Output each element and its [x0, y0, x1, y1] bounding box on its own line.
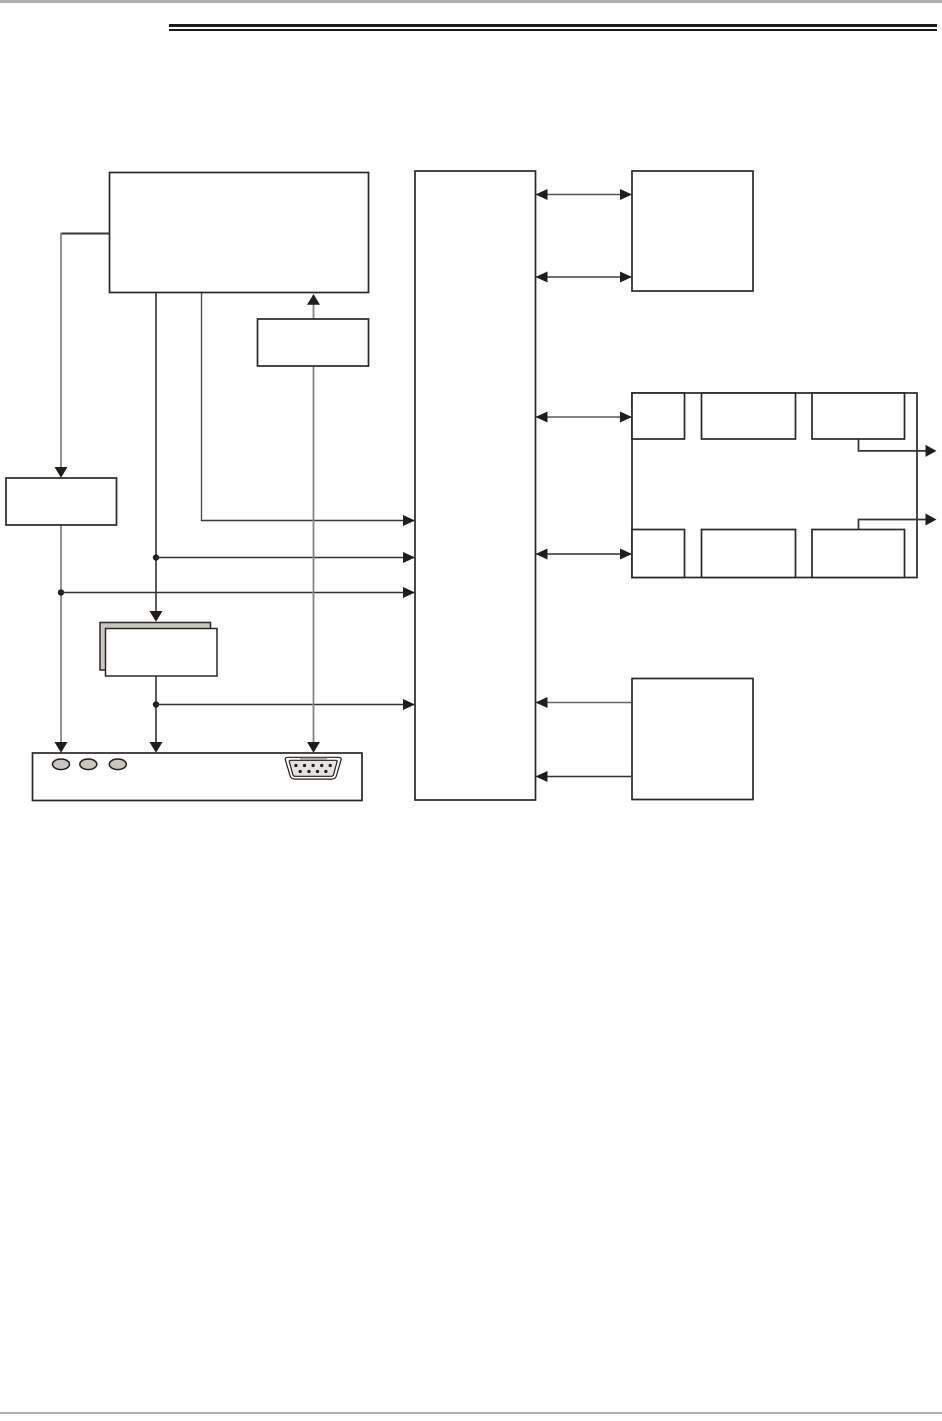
wire: bidirectional arrow central<->top-right y=277	[537, 276, 632, 278]
wire: exit arrow from T3 down-right y=450.9	[859, 439, 927, 451]
LED ellipse 1	[53, 759, 70, 770]
block: top-left controller	[110, 173, 369, 293]
wire: small box up-arrow into big box	[313, 304, 315, 319]
DB9 pin dots row 1	[294, 764, 297, 767]
wire: small box bottom down to panel with arrow	[313, 366, 315, 746]
block: bottom-right box	[632, 679, 753, 800]
header double rule	[169, 24, 937, 27]
wire: horizontal arrow y=704.5 to central box	[156, 704, 414, 706]
LED ellipse 2	[80, 759, 97, 770]
wire: bidirectional arrow central<->right block y=554	[537, 553, 632, 555]
junction dot at (156,704.5)	[153, 701, 159, 707]
DB9 connector outer shell	[285, 757, 341, 779]
block: inner box T3	[812, 393, 905, 439]
block: small box under top-left	[258, 319, 369, 366]
wire: exit arrow from B3 up-right y=519.5	[859, 520, 927, 530]
DB9 pin dots row 2	[299, 770, 302, 773]
block: inner box B1	[632, 530, 685, 578]
block: central bus/gate-array (tall)	[415, 171, 536, 800]
block: top-right memory	[632, 171, 753, 291]
junction dot at (156,557.5)	[153, 554, 159, 560]
DB9 connector inner face	[289, 760, 337, 776]
bottom page rule	[0, 1412, 942, 1414]
block: inner box T1	[632, 393, 685, 439]
DB9 top highlight	[300, 758, 327, 760]
wire: big box bottom x=156 down to stacked box with arrow	[155, 293, 157, 612]
block: left small box	[6, 478, 117, 525]
block: inner box T2	[702, 393, 796, 439]
wire: stacked box bottom down to panel with arrow	[155, 676, 157, 746]
wire: bidirectional arrow central<->right block y=417	[537, 416, 632, 418]
junction dot at (61,592.5)	[58, 589, 64, 595]
wire: big box bottom x=201.5 vertical segment	[201, 293, 203, 520]
wire: vertical down to left box with arrow	[60, 233, 62, 472]
LED ellipse 3	[109, 759, 126, 770]
wire: big box left to left box (horizontal at y=233.5)	[61, 233, 110, 235]
block: inner box B2	[702, 530, 796, 578]
wire: bidirectional arrow central<->top-right y=194.5	[537, 194, 632, 196]
block: stacked pages front sheet	[106, 629, 218, 677]
block: front panel	[33, 753, 363, 801]
wire: left box bottom down to panel with arrow	[60, 525, 62, 746]
wire: horizontal arrow y=520.5 to central box	[201, 520, 414, 522]
block: right middle outer frame	[632, 393, 917, 578]
wire: horizontal arrow y=557.5 to central box	[156, 557, 414, 559]
block: stacked pages back sheet	[100, 623, 211, 671]
wire: horizontal arrow y=592.5 to central box	[61, 592, 414, 594]
block: inner box B3	[812, 530, 905, 578]
wire: bottom-right box to central box y=776.5	[537, 776, 632, 778]
wire: bottom-right box to central box y=702.5	[537, 702, 632, 704]
top page border bar	[0, 0, 942, 3]
